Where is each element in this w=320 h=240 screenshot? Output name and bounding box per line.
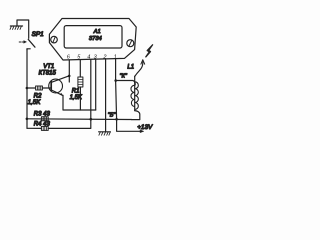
+13V arrowhead xyxy=(140,130,144,133)
svg-text:"К": "К" xyxy=(120,74,128,80)
transistor VT1 emitter arrowhead xyxy=(60,93,63,95)
transistor VT1 emitter stroke xyxy=(51,90,63,96)
coil bottom hook to supply wire xyxy=(132,111,140,120)
node: rail to R2 xyxy=(26,87,29,90)
pin 6 wire down to collector node xyxy=(68,60,70,82)
coil top lead to antenna arrow xyxy=(135,62,143,77)
switch SP1 lower contact hook xyxy=(27,49,30,50)
svg-text:+13V: +13V xyxy=(137,124,153,131)
pin 2 wire down to ground xyxy=(105,59,107,131)
wire R4 row from rail elbow to pin4 line xyxy=(27,119,91,128)
svg-text:A1: A1 xyxy=(93,29,101,35)
node: pin4 junction on supply wire xyxy=(90,118,93,121)
svg-text:1,5K: 1,5K xyxy=(28,99,42,106)
coil L1 right winding (4 bumps) xyxy=(135,82,138,110)
pin 1 wire down xyxy=(116,59,117,119)
transistor VT1 collector stroke xyxy=(51,76,69,83)
resistor R3 (striped box) xyxy=(41,117,48,121)
IC A1 package outline (octagon flange) xyxy=(49,19,136,61)
wire K: pin1 to coil top xyxy=(116,81,136,85)
wire R2 to base xyxy=(42,87,51,89)
IC left mounting hole xyxy=(51,36,58,43)
wire: left rail from switch down to R4 xyxy=(26,49,28,129)
R1 bottom lead xyxy=(79,87,81,110)
transistor VT1 base bar xyxy=(50,81,52,91)
switch actuation dashed arrow xyxy=(19,41,26,44)
switch SP1 blade xyxy=(28,39,35,47)
pin 5 wire to R1 xyxy=(79,60,81,77)
pin number labels 6 5 4 3 2 1 xyxy=(67,55,117,61)
resistor R1 (vertical striped box) xyxy=(78,77,83,87)
coil L1 axis xyxy=(134,76,136,110)
lightning bolt xyxy=(146,45,153,57)
svg-text:R4 43: R4 43 xyxy=(34,121,51,127)
coil L1 left winding (3 bumps) xyxy=(131,85,135,106)
resistor R4 (striped box) xyxy=(41,126,48,130)
svg-text:КТ815: КТ815 xyxy=(39,70,57,76)
node: pin1 to coil K tap xyxy=(114,79,117,82)
antenna radiation arrowhead xyxy=(141,60,145,64)
chassis antenna symbol (hatched bar, top-left) xyxy=(10,26,23,29)
svg-text:2: 2 xyxy=(102,55,107,61)
svg-text:1,5K: 1,5K xyxy=(70,95,83,101)
svg-text:L1: L1 xyxy=(127,65,134,71)
+13V feed wire with arrow xyxy=(117,119,141,131)
IC A1 inner body rectangle xyxy=(64,26,122,48)
pin 4 wire down to supply wire xyxy=(90,60,92,120)
svg-text:"Б": "Б" xyxy=(108,112,117,118)
wire from antenna to switch SP1 xyxy=(17,20,29,38)
pin 3 wire down xyxy=(95,60,97,111)
emitter wire to pin 3 xyxy=(63,95,96,110)
ground symbol xyxy=(99,132,111,135)
node: pin6-collector junction xyxy=(68,75,71,78)
svg-text:R1: R1 xyxy=(72,89,80,95)
svg-text:R3 43: R3 43 xyxy=(34,112,51,118)
node: rail-R3 junction xyxy=(26,118,29,121)
wire rail to R2 xyxy=(27,87,36,89)
node: +13V junction on supply wire xyxy=(115,118,118,121)
svg-text:SP1: SP1 xyxy=(32,31,45,38)
transistor VT1 circle xyxy=(49,79,63,93)
IC right mounting hole xyxy=(127,40,134,47)
svg-text:VT1: VT1 xyxy=(43,64,54,70)
svg-text:3734: 3734 xyxy=(89,36,102,42)
svg-text:4: 4 xyxy=(87,55,90,61)
resistor R2 (striped box) xyxy=(36,86,43,90)
supply wire (B net) from rail to coil xyxy=(27,118,132,121)
